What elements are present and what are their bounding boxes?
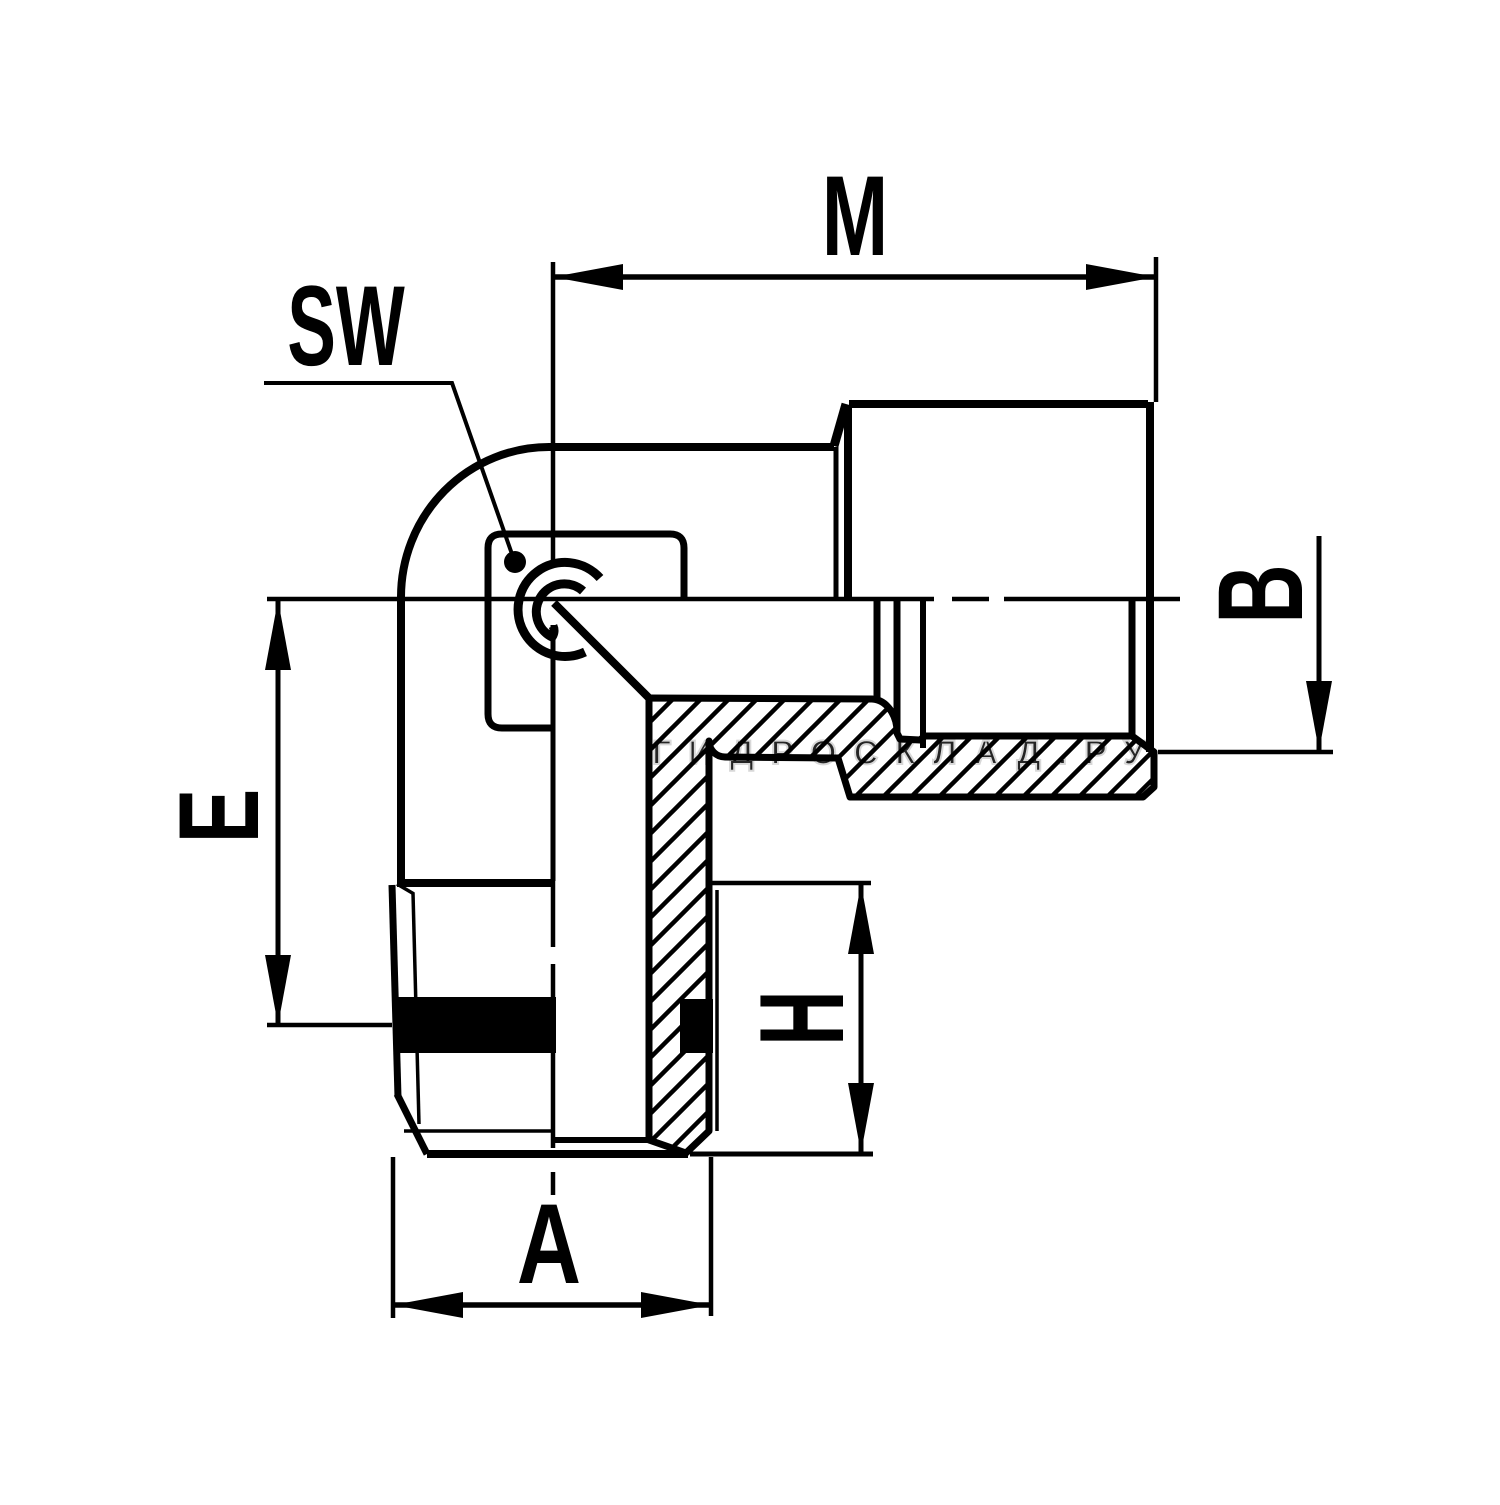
M arrow left [553, 264, 623, 290]
body outline: top edge [548, 443, 834, 451]
thread top edge right thin [710, 881, 871, 886]
dimension M line [553, 274, 1156, 280]
H arrow bottom [848, 1083, 874, 1153]
SW leader line [264, 383, 513, 557]
A arrow right [641, 1292, 711, 1318]
dimension A line [393, 1302, 711, 1308]
svg-text:SW: SW [287, 263, 405, 390]
B arrow [1306, 681, 1332, 751]
SW leader dot [504, 551, 526, 573]
hatched section wall (L-shaped) [649, 698, 1154, 1153]
socket left top chamfer [834, 404, 846, 446]
E arrow top [265, 600, 291, 670]
socket bore lines below axis [874, 601, 881, 701]
svg-text:B: B [1192, 564, 1328, 623]
svg-text:A: A [517, 1181, 581, 1308]
dimension B line [1317, 536, 1322, 751]
socket right edge [1146, 402, 1154, 752]
A right extension line [709, 1157, 714, 1316]
dimension H line [859, 884, 864, 1153]
watermark [652, 734, 1162, 772]
M right extension line [1154, 257, 1159, 402]
thread curl symbol inner arc [536, 584, 583, 637]
section diagonal break line [554, 603, 649, 698]
svg-text:M: M [822, 153, 888, 280]
E bottom extension line [267, 1023, 392, 1028]
SW flat square [488, 534, 684, 728]
male thread: major diameter left [392, 885, 398, 1097]
socket end bore chamfer line [1129, 601, 1136, 736]
A left extension line [391, 1157, 396, 1318]
thread curl symbol outer arc [518, 562, 600, 656]
male thread: end face [427, 1150, 688, 1158]
svg-text:E: E [156, 789, 283, 844]
male thread: bottom-left chamfer [397, 1094, 427, 1154]
male thread: crest line right (section) [715, 890, 719, 1131]
bore rim line at end [553, 1137, 649, 1143]
vertical centerline segments [551, 262, 556, 563]
male thread: chamfer circle line [404, 1129, 553, 1133]
M arrow right [1086, 264, 1156, 290]
male thread: top-left chamfer line [397, 884, 414, 894]
male thread: top edge [397, 879, 551, 887]
seal band left [397, 997, 556, 1053]
horizontal centerline (axis) [267, 597, 934, 602]
E arrow bottom [265, 955, 291, 1025]
svg-text:H: H [735, 990, 869, 1045]
body outline: top arc [401, 447, 549, 597]
arm end face line [834, 447, 839, 597]
seal band right [680, 999, 713, 1053]
socket top edge [849, 400, 1148, 408]
H bottom extension line [690, 1152, 873, 1157]
B extension line [1158, 750, 1333, 755]
male thread: root line left [413, 893, 419, 1124]
A arrow left [393, 1292, 463, 1318]
body outline: left edge [397, 598, 405, 881]
H arrow top [848, 884, 874, 954]
socket left edge [844, 408, 852, 597]
dimension E line [276, 601, 281, 1024]
